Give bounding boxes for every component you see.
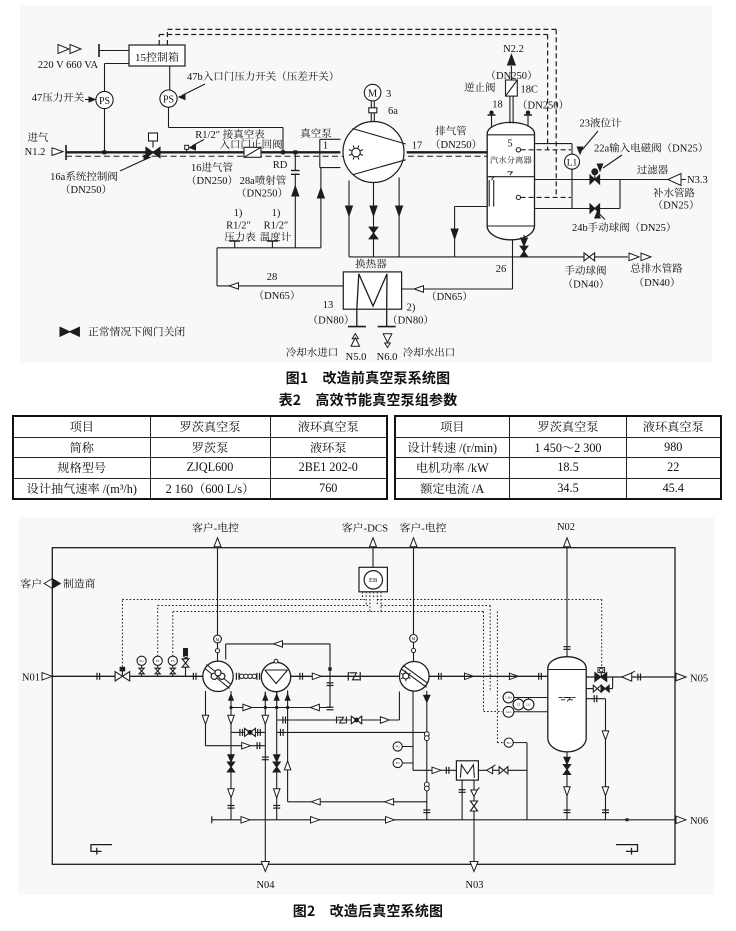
- svg-text:M: M: [216, 637, 220, 642]
- internal downcomer: [488, 180, 490, 207]
- discharge control valve: [595, 673, 601, 682]
- seal water line y720: [277, 719, 400, 721]
- discharge bypass: [586, 688, 612, 690]
- separator vessel: [487, 122, 534, 239]
- customer/manufacturer diamond: [44, 579, 52, 589]
- svg-text:制造商: 制造商: [63, 577, 96, 590]
- svg-text:PS: PS: [163, 94, 174, 105]
- svg-text:（DN250）: （DN250）: [486, 70, 538, 82]
- svg-text:（DN250）: （DN250）: [517, 100, 569, 112]
- vessel side nozzles: [491, 116, 493, 128]
- recirculation loop: [225, 644, 227, 660]
- check valve 18C: [506, 80, 518, 96]
- signal to valve: [121, 598, 123, 667]
- svg-text:排气管: 排气管: [435, 126, 467, 138]
- svg-text:逆止阀: 逆止阀: [464, 82, 496, 94]
- legend valve closed: [60, 327, 70, 336]
- svg-text:（DN40）: （DN40）: [634, 277, 681, 289]
- control box 15: [129, 45, 185, 66]
- svg-text:24b手动球阀（DN25）: 24b手动球阀（DN25）: [572, 222, 676, 234]
- N05 line: [586, 676, 675, 678]
- svg-text:1): 1): [272, 208, 281, 219]
- svg-text:18: 18: [492, 100, 503, 111]
- drain funnels: [91, 845, 112, 852]
- vessel side drain line: [586, 698, 605, 700]
- svg-text:2): 2): [407, 303, 416, 314]
- switch PS: [168, 656, 177, 665]
- N04 riser: [264, 692, 266, 864]
- svg-text:15控制箱: 15控制箱: [135, 51, 179, 64]
- vessel drain valve: [523, 235, 525, 257]
- strainer: [668, 174, 681, 186]
- LRP right drain: [426, 691, 428, 820]
- svg-text:PS: PS: [171, 659, 175, 663]
- roots pump P1: [203, 661, 233, 691]
- svg-text:FG: FG: [507, 741, 512, 745]
- check valve RD: [244, 147, 261, 157]
- svg-text:28a喷射管: 28a喷射管: [240, 175, 287, 187]
- drain end arrows: [629, 253, 639, 261]
- dotted drops to level instruments: [489, 606, 491, 693]
- svg-text:（DN65）: （DN65）: [254, 290, 301, 302]
- E2 drains to N03: [461, 780, 463, 820]
- svg-text:客户-DCS: 客户-DCS: [342, 522, 388, 535]
- cooling outlet symbol: [383, 334, 392, 343]
- svg-text:（DN40）: （DN40）: [563, 279, 610, 291]
- svg-text:PS: PS: [99, 96, 110, 107]
- svg-text:LAL: LAL: [506, 710, 512, 714]
- pump drain lines: [348, 181, 350, 257]
- gauge PG: [137, 656, 146, 665]
- level indicator L1: [565, 154, 580, 169]
- svg-text:16进气管: 16进气管: [191, 162, 233, 174]
- svg-text:（DN250）: （DN250）: [430, 139, 482, 151]
- svg-text:6a: 6a: [388, 106, 398, 117]
- inlet arrow: [52, 148, 63, 156]
- solenoid valve 22a: [590, 175, 595, 184]
- svg-text:N3.3: N3.3: [687, 175, 708, 186]
- svg-text:冷却水出口: 冷却水出口: [403, 347, 456, 359]
- gas cooler E1: [261, 662, 290, 691]
- power arrows: [58, 45, 69, 54]
- svg-text:TG: TG: [395, 761, 400, 765]
- svg-text:进气: 进气: [28, 132, 49, 144]
- svg-text:22a输入电磁阀（DN25）: 22a输入电磁阀（DN25）: [594, 143, 708, 155]
- pipe dashed trace: [66, 155, 487, 157]
- pump wedge chords: [352, 129, 405, 145]
- svg-text:手动球阀: 手动球阀: [565, 265, 607, 277]
- ticks before pump: [192, 673, 194, 680]
- drain D overflow: [287, 692, 289, 802]
- svg-text:PG: PG: [139, 659, 144, 663]
- svg-text:客户: 客户: [20, 577, 42, 590]
- pump rotor sun: [352, 148, 361, 157]
- inlet control valve: [115, 672, 122, 681]
- cooler taps: [264, 692, 266, 696]
- svg-text:PG: PG: [396, 745, 401, 749]
- N06 header: [212, 819, 675, 821]
- svg-text:47b入口门压力开关（压差开关）: 47b入口门压力开关（压差开关）: [187, 71, 339, 83]
- pump drain valve: [369, 227, 378, 233]
- EB dotted stubs: [362, 592, 364, 600]
- junction dot B: [281, 150, 285, 154]
- wire PS left to pipe: [104, 109, 106, 153]
- drain C: [276, 692, 278, 820]
- gauge FL: [504, 738, 513, 747]
- svg-text:真空泵: 真空泵: [300, 128, 332, 140]
- level mark: [559, 697, 563, 699]
- heat exchanger box: [343, 272, 401, 309]
- jet pipe capacitor: [294, 152, 296, 170]
- wire box to right PS: [169, 66, 171, 90]
- pressure switch PS right: [160, 90, 177, 107]
- wire PS right down and to vacuum tap: [168, 107, 170, 127]
- svg-text:N6.0: N6.0: [377, 352, 398, 363]
- vessel neck: [509, 96, 511, 123]
- power supply terminal: [98, 44, 100, 57]
- svg-text:1): 1): [234, 208, 243, 219]
- ball valve line y732: [231, 731, 265, 733]
- vacuum pump circle: [343, 122, 404, 183]
- liquid ring pump P2: [400, 662, 430, 692]
- pump return riser: [320, 168, 322, 248]
- svg-text:RD: RD: [273, 160, 288, 171]
- figure1 background: [20, 5, 712, 363]
- tap thermometer: [271, 242, 273, 248]
- svg-text:N04: N04: [256, 880, 275, 891]
- svg-text:13: 13: [323, 300, 334, 311]
- svg-text:（DN250）: （DN250）: [236, 188, 288, 200]
- svg-text:换热器: 换热器: [355, 259, 387, 271]
- signal M2 up: [413, 548, 415, 635]
- water line y707: [231, 707, 330, 709]
- vacuum gauge tap: [185, 145, 189, 149]
- line to LRP: [291, 675, 400, 677]
- control valve 16a: [149, 133, 158, 141]
- level mark: [507, 172, 512, 175]
- N02 line: [566, 548, 568, 657]
- svg-text:1: 1: [323, 141, 328, 152]
- exhaust pipe: [407, 151, 488, 153]
- bottom lines: [205, 691, 207, 746]
- svg-text:总排水管路: 总排水管路: [630, 263, 683, 275]
- svg-text:L1: L1: [567, 159, 578, 169]
- flex coupling: [235, 673, 237, 680]
- svg-text:（DN65）: （DN65）: [426, 291, 473, 303]
- vessel drain: [566, 752, 568, 820]
- spec break ticks: [96, 673, 98, 680]
- relief valve: [185, 663, 187, 676]
- svg-text:冷却水进口: 冷却水进口: [286, 347, 339, 359]
- tap pressure gauge: [234, 242, 236, 248]
- junction dot C: [293, 150, 297, 154]
- svg-text:过滤器: 过滤器: [637, 165, 669, 177]
- coil flanges: [348, 326, 366, 328]
- svg-text:汽水分离器: 汽水分离器: [490, 155, 532, 165]
- svg-text:5: 5: [507, 139, 512, 150]
- svg-text:47压力开关: 47压力开关: [32, 92, 85, 104]
- LRP center drain: [412, 691, 414, 770]
- svg-text:（DN250）: （DN250）: [186, 175, 238, 187]
- pump inlet box: [320, 138, 341, 140]
- EB control box: [359, 567, 387, 592]
- svg-text:N2.2: N2.2: [503, 44, 524, 55]
- dotted bus left: [122, 599, 366, 601]
- main inlet pipe: [66, 151, 340, 153]
- level gauge loop: [535, 143, 573, 145]
- separator drain to collector: [454, 207, 456, 257]
- line 26 into HX: [402, 288, 513, 290]
- svg-text:R1/2″: R1/2″: [226, 221, 251, 232]
- figure2 background: [18, 517, 714, 895]
- HX coil M: [357, 274, 387, 327]
- svg-text:补水管路: 补水管路: [653, 188, 695, 200]
- junction dot A: [102, 150, 106, 154]
- svg-text:N5.0: N5.0: [346, 352, 367, 363]
- svg-text:R1/2″: R1/2″: [264, 221, 289, 232]
- svg-text:26: 26: [496, 264, 507, 275]
- dashed signal inner: [158, 35, 160, 46]
- svg-text:温度计: 温度计: [260, 232, 292, 244]
- pipe break Z: [347, 672, 349, 681]
- svg-text:N01: N01: [22, 672, 40, 683]
- svg-text:客户-电控: 客户-电控: [400, 522, 447, 535]
- svg-text:LAH: LAH: [505, 696, 512, 700]
- motor M2: [413, 642, 415, 661]
- svg-text:18C: 18C: [521, 85, 539, 96]
- heat exchanger E2: [456, 761, 478, 780]
- svg-text:17: 17: [412, 141, 423, 152]
- svg-text:（DN250）: （DN250）: [60, 184, 112, 196]
- motor M: [364, 84, 381, 101]
- makeup line 22a: [535, 179, 591, 181]
- svg-text:正常情况下阀门关闭: 正常情况下阀门关闭: [88, 326, 185, 339]
- signal M1 up: [217, 548, 219, 635]
- diagram border: [52, 548, 675, 865]
- pressure switch PS left: [96, 91, 113, 108]
- N05 exit: [676, 673, 686, 681]
- dotted drop to LV valve: [601, 600, 603, 668]
- vent line N2.2: [510, 66, 512, 80]
- svg-text:（DN80）: （DN80）: [387, 315, 434, 327]
- svg-text:M: M: [368, 89, 378, 100]
- svg-text:M: M: [412, 636, 416, 641]
- cooling inlet symbol: [352, 334, 358, 339]
- manual ball valve DN40: [584, 253, 589, 261]
- inlet flange: [65, 145, 67, 160]
- transmitter PT: [153, 656, 162, 665]
- svg-text:LG: LG: [526, 703, 531, 707]
- bypass vertical: [619, 180, 621, 209]
- return line 28: [216, 248, 218, 286]
- dashed signal outer: [166, 29, 168, 45]
- main suction line: [52, 675, 203, 677]
- svg-text:28: 28: [267, 272, 278, 283]
- svg-text:N02: N02: [557, 522, 575, 533]
- svg-text:压力表: 压力表: [224, 232, 256, 244]
- dotted bus right: [377, 599, 601, 601]
- svg-text:N05: N05: [690, 673, 708, 684]
- after pump line: [438, 673, 440, 680]
- motor shaft: [370, 101, 372, 122]
- manual valve 24b: [572, 208, 620, 210]
- heat exchanger E2 feed: [413, 769, 456, 771]
- vessel nipple top: [516, 148, 520, 152]
- wire box to left PS: [105, 63, 130, 65]
- svg-text:客户-电控: 客户-电控: [192, 522, 239, 535]
- collector line: [349, 256, 628, 258]
- E2 outlet: [478, 769, 527, 771]
- separator vessel V1: [548, 657, 586, 752]
- motor M1: [217, 643, 219, 661]
- svg-text:（DN25）: （DN25）: [653, 200, 700, 212]
- level instruments: [503, 692, 514, 703]
- svg-text:N03: N03: [465, 880, 483, 891]
- separator internal outlet line: [455, 206, 489, 208]
- check valve N05: [622, 673, 632, 681]
- svg-text:N1.2: N1.2: [25, 147, 46, 158]
- svg-text:23液位计: 23液位计: [580, 118, 622, 130]
- gauge manifold: [217, 247, 321, 249]
- svg-text:220 V 660 VA: 220 V 660 VA: [38, 60, 99, 71]
- svg-text:EB: EB: [369, 577, 378, 584]
- svg-text:（DN80）: （DN80）: [308, 315, 355, 327]
- svg-text:3: 3: [386, 89, 391, 100]
- svg-text:16a系统控制阀: 16a系统控制阀: [50, 171, 118, 183]
- svg-text:N06: N06: [690, 816, 708, 827]
- pump drain B: [230, 691, 232, 820]
